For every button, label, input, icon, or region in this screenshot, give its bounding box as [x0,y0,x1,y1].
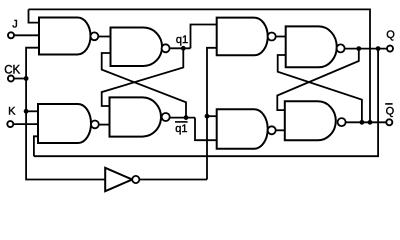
wire Qbar cross to U6 input [278,55,362,122]
junction q1 [181,46,186,51]
overline Qbar [385,103,392,105]
wire q1 to U5 input [191,25,217,49]
wire U5 out to U6 [276,36,286,38]
junction Q cross [356,46,361,51]
wire top feedback to U1 input [29,9,40,22]
nand U8 (slave latch bottom) [285,101,336,140]
inverter U9 [105,168,132,191]
bubble U4 [162,113,170,121]
svg-text:J: J [12,19,17,31]
bubble U9 [132,176,139,183]
nand U7 (slave bottom input) [217,109,268,148]
nand U1 (J gate, 3-input) [39,18,91,55]
junction CKbar to U7 [205,114,210,119]
svg-text:Q: Q [386,105,395,117]
wire q1 out [170,47,191,49]
terminal CK [8,76,14,82]
wire inverter out [139,179,207,181]
wire CK up to U1 input [26,48,39,79]
wire q1bar out [170,117,195,119]
junction CK to U3 [24,109,29,114]
bubble U6 [337,44,345,52]
bubble U5 [268,33,276,41]
svg-text:Q: Q [386,29,395,41]
wire CK to U3 top input [26,110,38,112]
svg-text:q1: q1 [176,34,188,46]
junction CK node [24,76,29,81]
bubble U3 [91,121,99,129]
svg-text:q1: q1 [175,123,187,135]
terminal Q [387,46,393,52]
wire Qbar top feedback [29,9,371,122]
wire J to U1 [14,34,39,36]
nand U2 (master latch top) [111,28,163,67]
wire CKbar to U7 top input [207,115,217,117]
wire q1bar to U7 input [195,118,217,141]
wire CKbar up to U5 input [207,48,217,180]
wire q1bar cross to U2 input [102,53,186,118]
wire U3 out to U4 [99,124,110,126]
wire q1 cross to U4 input [102,48,184,106]
bubble U8 [338,118,346,126]
wire Qbar out [346,121,387,123]
wire Q out [345,48,387,50]
wire Q cross to U8 input [277,49,359,111]
terminal K [7,121,13,127]
wire K to U3 [13,123,38,125]
overline q1bar [175,121,188,123]
svg-text:K: K [8,105,16,117]
bubble U7 [268,126,276,134]
wire Q bottom feedback [34,49,378,157]
bubble U1 [91,32,99,40]
junction Qbar cross [360,120,365,125]
wire bottom feedback to U3 input [34,136,38,156]
nand U5 (slave top input) [217,18,268,56]
nand U4 (master latch bottom) [110,97,162,136]
nand U3 (K gate, 3-input) [38,104,91,143]
terminal Qbar [386,119,392,125]
wire U7 out to U8 [276,129,285,131]
terminal J [8,32,14,38]
junction Q feedback [376,46,381,51]
junction q1bar [184,115,189,120]
wire U1 out to U2 [98,36,110,38]
bubble U2 [162,44,170,52]
nand U6 (slave latch top) [286,26,337,67]
junction Qbar feedback [368,120,373,125]
wire CK to node [14,78,26,80]
wire CK down to inverter [26,79,105,180]
svg-text:CK: CK [4,64,20,76]
